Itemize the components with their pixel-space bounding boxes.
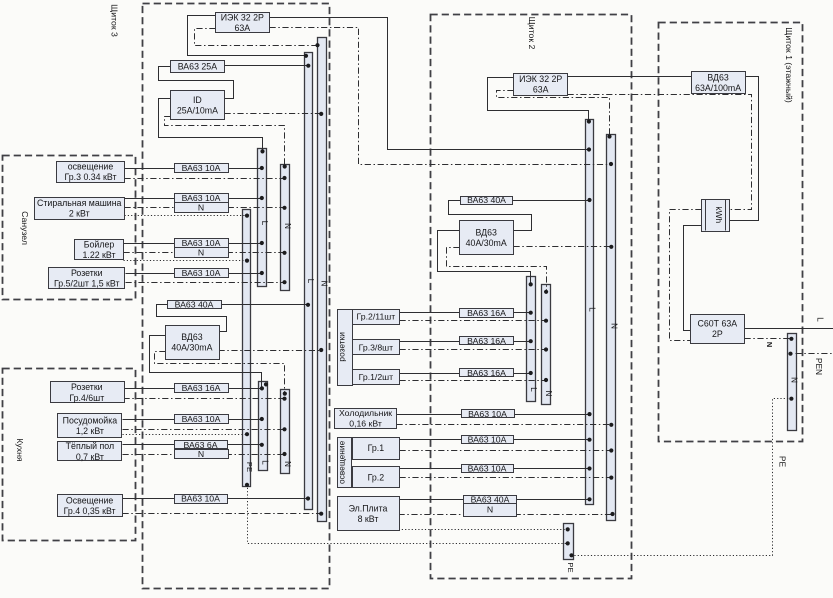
svg-text:освещение: освещение xyxy=(68,161,114,171)
svg-text:ВА63 10А: ВА63 10А xyxy=(468,463,507,473)
svg-text:Розетки: Розетки xyxy=(71,382,103,392)
svg-text:ВА63 16А: ВА63 16А xyxy=(467,308,506,318)
svg-text:ВД63: ВД63 xyxy=(707,72,729,82)
svg-text:ВА63 10А: ВА63 10А xyxy=(468,409,507,419)
svg-text:Тёплый пол: Тёплый пол xyxy=(66,441,114,451)
svg-text:kWh: kWh xyxy=(714,206,724,223)
svg-text:63А: 63А xyxy=(533,85,549,95)
svg-text:N: N xyxy=(790,377,799,383)
svg-text:ИЭК 32 2Р: ИЭК 32 2Р xyxy=(519,74,562,84)
svg-text:Санузел: Санузел xyxy=(20,211,30,245)
svg-text:N: N xyxy=(487,505,493,515)
svg-text:Бойлер: Бойлер xyxy=(84,239,115,249)
svg-text:63А: 63А xyxy=(234,23,250,33)
svg-text:Гр.3 0.34 кВт: Гр.3 0.34 кВт xyxy=(65,172,117,182)
svg-text:Стиральная машина: Стиральная машина xyxy=(37,198,122,208)
svg-text:0,16 кВт: 0,16 кВт xyxy=(349,419,382,429)
svg-text:8 кВт: 8 кВт xyxy=(358,514,379,524)
svg-text:1.22 кВт: 1.22 кВт xyxy=(82,250,115,260)
svg-text:PE: PE xyxy=(778,456,788,468)
svg-text:ВА63 40А: ВА63 40А xyxy=(471,494,510,504)
svg-text:ВА63 16А: ВА63 16А xyxy=(467,336,506,346)
svg-text:0,7 кВт: 0,7 кВт xyxy=(76,452,104,462)
svg-text:освещение: освещение xyxy=(336,440,346,484)
svg-text:Гр.2/11шт: Гр.2/11шт xyxy=(357,312,396,322)
svg-text:Гр.1: Гр.1 xyxy=(368,443,385,453)
svg-text:2 кВт: 2 кВт xyxy=(69,209,90,219)
svg-text:N: N xyxy=(198,449,204,459)
svg-text:Гр.3/8шт: Гр.3/8шт xyxy=(359,342,394,352)
svg-text:ВА63 10А: ВА63 10А xyxy=(182,163,221,173)
svg-text:PEN: PEN xyxy=(814,358,824,375)
svg-text:L: L xyxy=(260,460,269,465)
svg-text:N: N xyxy=(544,391,553,397)
svg-text:63А/100mA: 63А/100mA xyxy=(695,83,741,93)
svg-text:40А/30mA: 40А/30mA xyxy=(171,343,212,353)
svg-text:N: N xyxy=(198,247,204,257)
svg-text:ВА63 40А: ВА63 40А xyxy=(467,195,506,205)
svg-text:ВА63 10А: ВА63 10А xyxy=(181,494,220,504)
svg-text:ВА63 10А: ВА63 10А xyxy=(468,435,507,445)
svg-text:N: N xyxy=(319,281,328,287)
svg-text:розетки: розетки xyxy=(337,332,347,362)
svg-text:Холодильник: Холодильник xyxy=(339,408,392,418)
svg-text:PE: PE xyxy=(566,562,575,572)
svg-text:Розетки: Розетки xyxy=(71,268,103,278)
svg-text:L: L xyxy=(529,387,538,392)
svg-text:PE: PE xyxy=(245,462,254,472)
svg-text:ВА63 16А: ВА63 16А xyxy=(467,368,506,378)
svg-text:25А/10mA: 25А/10mA xyxy=(177,105,218,115)
svg-text:L: L xyxy=(260,221,269,226)
svg-text:N: N xyxy=(610,323,619,329)
svg-text:ВА63 10А: ВА63 10А xyxy=(182,414,221,424)
svg-text:L: L xyxy=(306,279,315,284)
svg-text:L: L xyxy=(588,307,597,312)
svg-text:N: N xyxy=(765,342,774,347)
svg-text:ВА63 25А: ВА63 25А xyxy=(178,61,217,71)
svg-text:N: N xyxy=(198,202,204,212)
svg-text:40А/30mA: 40А/30mA xyxy=(466,238,507,248)
svg-text:Щиток 3: Щиток 3 xyxy=(110,4,120,37)
svg-text:1,2 кВт: 1,2 кВт xyxy=(76,426,104,436)
svg-text:ID: ID xyxy=(193,95,202,105)
svg-text:2Р: 2Р xyxy=(712,329,723,339)
svg-text:N: N xyxy=(283,461,292,467)
svg-text:ВА63 10А: ВА63 10А xyxy=(182,268,221,278)
svg-text:Щиток 2: Щиток 2 xyxy=(527,17,537,50)
svg-text:N: N xyxy=(283,223,292,229)
svg-text:Эл.Плита: Эл.Плита xyxy=(349,503,388,513)
svg-text:ИЭК 32 2Р: ИЭК 32 2Р xyxy=(221,13,264,23)
svg-text:Гр.1/2шт: Гр.1/2шт xyxy=(359,372,394,382)
svg-text:Посудомойка: Посудомойка xyxy=(63,416,118,426)
svg-text:L: L xyxy=(816,317,826,322)
svg-text:Гр.5/2шт 1,5 кВт: Гр.5/2шт 1,5 кВт xyxy=(54,278,120,288)
svg-text:ВА63 16А: ВА63 16А xyxy=(182,383,221,393)
svg-text:Кухня: Кухня xyxy=(15,438,25,462)
svg-text:ВД63: ВД63 xyxy=(181,332,203,342)
svg-text:Гр.4 0,35 кВт: Гр.4 0,35 кВт xyxy=(64,506,116,516)
svg-text:Гр.2: Гр.2 xyxy=(368,472,385,482)
svg-text:Гр.4/6шт: Гр.4/6шт xyxy=(69,393,104,403)
svg-text:С60Т 63А: С60Т 63А xyxy=(698,318,738,328)
svg-text:ВД63: ВД63 xyxy=(475,227,497,237)
svg-text:ВА63 40А: ВА63 40А xyxy=(175,300,214,310)
svg-text:Щиток 1 (этажный): Щиток 1 (этажный) xyxy=(784,27,794,103)
svg-text:Освещение: Освещение xyxy=(66,495,114,505)
